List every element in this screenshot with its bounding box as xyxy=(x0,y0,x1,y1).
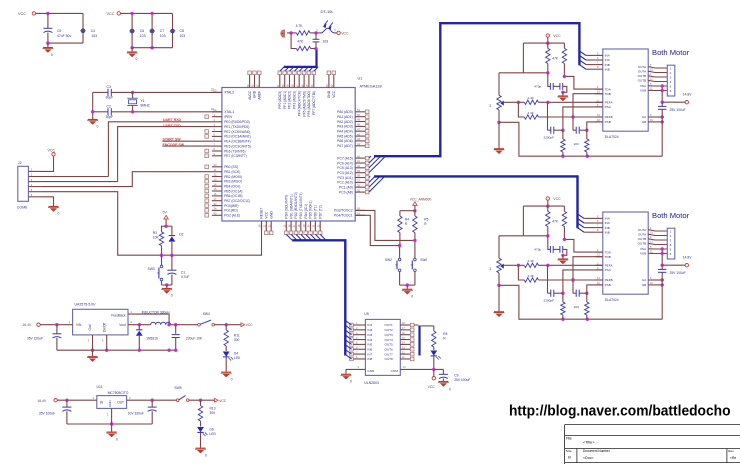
svg-text:10K: 10K xyxy=(153,235,160,239)
resistor R11 300 xyxy=(225,325,227,330)
pin PD3 (TXD1/INT3) (28) bottom of U1 xyxy=(300,221,302,231)
svg-text:OUT6: OUT6 xyxy=(385,347,394,351)
potentiometer driver 2 xyxy=(498,236,500,258)
resistor R3 10K xyxy=(161,226,163,232)
svg-text:PG2 (ALE): PG2 (ALE) xyxy=(224,214,240,218)
svg-text:0: 0 xyxy=(97,125,99,129)
pin IN3 of U5 xyxy=(353,334,365,336)
svg-text:C5: C5 xyxy=(57,29,61,33)
svg-text:300: 300 xyxy=(234,338,240,342)
pin PG1(RD) (34) of U1 xyxy=(212,209,222,211)
node junctions on RESET rail xyxy=(160,254,163,257)
svg-text:PE4 (OC3B/INT4): PE4 (OC3B/INT4) xyxy=(224,140,250,144)
svg-text:Size: Size xyxy=(566,449,572,453)
pin PA4 (AD4) (47) of U1 xyxy=(355,130,365,132)
node junction at C5 top xyxy=(46,12,49,15)
svg-text:OUTB: OUTB xyxy=(638,237,647,241)
svg-text:PSB: PSB xyxy=(605,283,611,287)
diode 1N5819 xyxy=(138,325,140,330)
pin PD1 (SDA/INT1) (26) bottom of U1 xyxy=(290,221,292,231)
svg-text:VSB: VSB xyxy=(640,252,646,256)
ground 0 reg2 xyxy=(111,424,113,432)
ground 0 at D4 xyxy=(225,357,227,372)
pin PC5 (A13) (40) of U1 xyxy=(355,167,365,169)
svg-text:INA: INA xyxy=(605,58,611,62)
pin PE7 (IC3/INT7) (9) of U1 xyxy=(212,155,222,157)
pin PE4 (OC3B/INT4) (6) of U1 xyxy=(212,140,222,142)
svg-text:SW5: SW5 xyxy=(174,386,181,390)
pin TDB driver 1 xyxy=(596,93,603,95)
pin PD2 (RXD1/INT2) (27) bottom of U1 xyxy=(295,221,297,231)
wire PSA drop driver 2 xyxy=(563,270,604,293)
wire PE5 ENCODE SW net xyxy=(162,145,212,147)
svg-text:OUTB: OUTB xyxy=(638,79,647,83)
pin PB2 (MOSI) (12) of U1 xyxy=(212,176,222,178)
capacitor 35V 220uF reg1 xyxy=(56,325,58,334)
capacitor 220uF reg1 output xyxy=(175,325,177,334)
wire pot wiper driver 1 xyxy=(504,101,525,103)
svg-text:PB4 (OC0): PB4 (OC0) xyxy=(224,185,240,189)
svg-text:COM: COM xyxy=(391,369,399,373)
pin PF1 (ADC1) (60) top of U1 xyxy=(284,74,286,87)
svg-text:IN5: IN5 xyxy=(367,343,372,347)
svg-text:0: 0 xyxy=(411,294,413,298)
svg-text:OUT2: OUT2 xyxy=(385,328,394,332)
pin IN7 of U5 xyxy=(353,353,365,355)
svg-text:U5: U5 xyxy=(364,312,368,316)
wire phototransistor to VCC xyxy=(334,32,338,34)
svg-text:OUTA: OUTA xyxy=(638,69,647,73)
pin IN4 of U5 xyxy=(353,339,365,341)
svg-text:0: 0 xyxy=(350,379,352,383)
svg-text:PC0 (A8): PC0 (A8) xyxy=(339,190,353,194)
svg-text:C8: C8 xyxy=(180,29,184,33)
svg-text:3: 3 xyxy=(489,104,491,108)
svg-text:AVCC: AVCC xyxy=(248,90,252,100)
svg-text:D6: D6 xyxy=(210,427,214,431)
pin VCC (21) bottom of U1 xyxy=(265,221,267,231)
pin GND (63) top of U1 xyxy=(254,74,256,87)
svg-text:PSA: PSA xyxy=(605,105,612,109)
svg-text:OUTB: OUTB xyxy=(638,74,647,78)
svg-text:PE6 (T3/INT6): PE6 (T3/INT6) xyxy=(224,149,245,153)
ground 0 reset xyxy=(166,285,168,288)
pin PF7 (ADC7/TDI) (54) top of U1 xyxy=(313,74,315,87)
pin PD7 (T2) (32) bottom of U1 xyxy=(319,221,321,231)
pin PE0 (RXD0/PD0) (2) of U1 xyxy=(212,121,222,123)
wire pot wiper driver 2 xyxy=(504,264,525,266)
svg-text:PC1 (A9): PC1 (A9) xyxy=(339,186,353,190)
svg-text:GND: GND xyxy=(327,90,331,98)
pin 2 of J2 xyxy=(28,176,42,178)
svg-text:INB: INB xyxy=(605,67,610,71)
wire VCC_ARM to R4 R5 xyxy=(414,205,416,210)
svg-text:3: 3 xyxy=(489,267,491,271)
wire VS trunk driver 1 xyxy=(661,86,663,106)
svg-text:PC2 (A10): PC2 (A10) xyxy=(337,181,352,185)
resistor R6 xyxy=(433,326,435,331)
pin PF0 (ADC0) (61) top of U1 xyxy=(279,74,281,87)
svg-text:PSA: PSA xyxy=(605,268,612,272)
bus PC7-PC4 to motor driver 1 xyxy=(374,23,579,156)
wire VCC rail driver 1 xyxy=(523,42,564,44)
wire TDA net driver 1 xyxy=(564,76,604,89)
svg-text:PF2 (ADC2): PF2 (ADC2) xyxy=(288,91,292,109)
svg-text:470p: 470p xyxy=(534,85,541,89)
svg-text:C9: C9 xyxy=(454,374,458,378)
pin TDB driver 2 xyxy=(596,256,603,258)
resistor R4 xyxy=(399,211,401,216)
wire PE4 START SW net xyxy=(162,140,212,142)
svg-text:VSB: VSB xyxy=(640,89,646,93)
svg-text:PB5 (OC1A): PB5 (OC1A) xyxy=(224,189,242,193)
IC U1 ATMEGA128 body xyxy=(222,88,355,222)
svg-text:SW0: SW0 xyxy=(420,258,427,262)
svg-text:PE7 (IC3/INT7): PE7 (IC3/INT7) xyxy=(224,154,247,158)
svg-text:Both Motor: Both Motor xyxy=(652,48,690,57)
svg-text:XTAL1: XTAL1 xyxy=(224,110,234,114)
wire SW5 to VCC reg2 xyxy=(189,399,215,401)
svg-text:PEFA: PEFA xyxy=(605,264,614,268)
svg-text:0: 0 xyxy=(58,212,60,216)
LED D6 xyxy=(200,421,202,427)
resistor 47K left driver 1 xyxy=(547,43,549,48)
node sensor output xyxy=(314,47,317,50)
pin PA1 (AD1) (50) of U1 xyxy=(355,116,365,118)
wire crystal ground leg xyxy=(92,92,94,119)
svg-text:PD6 (T1): PD6 (T1) xyxy=(314,205,318,218)
svg-text:B: B xyxy=(568,456,571,460)
pin PC3 (A11) (38) of U1 xyxy=(355,177,365,179)
svg-text:2200pF: 2200pF xyxy=(544,135,555,139)
svg-text:R3: R3 xyxy=(153,231,157,235)
pin INB driver 1 xyxy=(596,68,603,70)
pin /PEN (1) of U1 xyxy=(212,116,222,118)
svg-text:PB6 (OC1B): PB6 (OC1B) xyxy=(224,194,242,198)
title block frame xyxy=(565,425,740,464)
svg-text:Y1: Y1 xyxy=(141,99,145,103)
svg-text:OUT4: OUT4 xyxy=(385,338,394,342)
svg-text:Gnd: Gnd xyxy=(88,324,92,330)
pin TDA driver 1 xyxy=(596,88,603,90)
svg-text:0: 0 xyxy=(205,453,207,457)
svg-text:GB: GB xyxy=(642,120,646,124)
bus PD to ULN2803 xyxy=(292,240,345,355)
pin PE1 (TXD0/PD0) (3) of U1 xyxy=(212,126,222,128)
pin IN8 of U5 xyxy=(353,358,365,360)
pin XTAL1 (24) of U1 xyxy=(212,111,222,113)
svg-text:PEFB: PEFB xyxy=(605,115,613,119)
svg-text:PD5 (XCK1): PD5 (XCK1) xyxy=(309,200,313,218)
svg-text:PA3 (AD3): PA3 (AD3) xyxy=(337,125,353,129)
pin PC6 (A14) (41) of U1 xyxy=(355,162,365,164)
wire VIN reg1 xyxy=(40,324,72,326)
svg-text:PF6 (ADC6/TDO): PF6 (ADC6/TDO) xyxy=(307,91,311,117)
node after inductor reg1 xyxy=(171,324,199,326)
wire bottom rail driver 1 xyxy=(499,122,662,156)
svg-text:SW3: SW3 xyxy=(148,267,155,271)
pin PB0 (SS) (10) of U1 xyxy=(212,166,222,168)
IR emitter element xyxy=(281,30,285,37)
wire to PEFB driver 1 xyxy=(538,116,604,118)
pin INB driver 2 xyxy=(596,227,603,229)
svg-text:PE2 (XCK0/AIN0): PE2 (XCK0/AIN0) xyxy=(224,130,250,134)
svg-text:103: 103 xyxy=(160,34,166,38)
svg-text:103: 103 xyxy=(574,142,579,146)
svg-text:PA5 (AD5): PA5 (AD5) xyxy=(337,134,353,138)
svg-text:<Re: <Re xyxy=(730,456,736,460)
power port VCC down at U5 xyxy=(433,369,435,376)
capacitor C1 4.7uF xyxy=(171,255,173,270)
wire 5V to R3/D2 xyxy=(165,219,167,226)
svg-text:OUTB: OUTB xyxy=(638,242,647,246)
pin PEFB driver 1 xyxy=(596,116,603,118)
svg-text:PB3 (MISO): PB3 (MISO) xyxy=(224,180,242,184)
svg-text:VCC: VCC xyxy=(553,197,561,201)
wire OUT reg2 xyxy=(127,399,177,401)
pin PC1 (A9) (36) of U1 xyxy=(355,186,365,188)
wire to PEFB driver 2 xyxy=(538,279,604,281)
svg-text:OUTA: OUTA xyxy=(638,232,647,236)
svg-text:1N5819: 1N5819 xyxy=(146,336,158,340)
wire bottom group1 xyxy=(48,42,83,44)
wire PG4 to R4 node xyxy=(355,215,399,258)
pin VCC (52) top of U1 xyxy=(333,74,335,87)
svg-text:PF7 (ADC7/TDI): PF7 (ADC7/TDI) xyxy=(312,91,316,115)
resistor R5 xyxy=(414,211,416,216)
pin PD4 (IC1) (29) bottom of U1 xyxy=(305,221,307,231)
wire to phototransistor base node xyxy=(310,32,322,34)
wire to PEFA driver 1 xyxy=(538,101,604,103)
pin INA driver 1 xyxy=(596,59,603,61)
svg-text:PE1 (TXD0/PD0): PE1 (TXD0/PD0) xyxy=(224,125,249,129)
wire XTAL1 to MCU pin 24 xyxy=(111,111,222,113)
pin INB driver 2 xyxy=(596,231,603,233)
capacitor 25V 100uF driver 2 xyxy=(658,269,666,272)
pin PF2 (ADC2) (59) top of U1 xyxy=(289,74,291,87)
svg-text:UART RXD: UART RXD xyxy=(163,118,182,122)
ground 0 crystal xyxy=(87,120,98,125)
svg-text:R4: R4 xyxy=(405,217,409,221)
svg-text:VSA: VSA xyxy=(640,84,647,88)
svg-text:2.4K: 2.4K xyxy=(528,259,535,263)
svg-text:OUT: OUT xyxy=(117,401,124,405)
svg-text:PF0 (ADC0): PF0 (ADC0) xyxy=(278,91,282,109)
svg-text:0: 0 xyxy=(51,53,53,57)
pin PA6 (AD6) (45) of U1 xyxy=(355,140,365,142)
svg-text:OUT1: OUT1 xyxy=(385,323,394,327)
wire ground rail reg1 xyxy=(57,349,176,351)
svg-text:35V 100uF: 35V 100uF xyxy=(39,412,55,416)
pin PA3 (AD3) (48) of U1 xyxy=(355,125,365,127)
svg-text:START SW: START SW xyxy=(163,138,182,142)
svg-text:2.4K: 2.4K xyxy=(528,111,535,115)
svg-text:0: 0 xyxy=(171,294,173,298)
wire J2 pin6 to ground xyxy=(42,197,54,206)
IC DLA7024 driver 2 xyxy=(603,212,648,294)
svg-text:VCC: VCC xyxy=(265,211,269,219)
svg-text:4.7uF: 4.7uF xyxy=(181,275,189,279)
IC U5 ULN2803 body xyxy=(365,319,400,375)
pin GND (22) bottom of U1 xyxy=(270,221,272,231)
ground 470p driver 1 xyxy=(562,92,564,95)
resistor right vertical driver 2 xyxy=(585,302,589,315)
wire J2 pin1 to VCC xyxy=(42,156,54,171)
svg-text:Vout: Vout xyxy=(119,323,125,327)
resistor 47K right driver 1 xyxy=(563,43,565,48)
wire PSB drop driver 1 xyxy=(587,122,604,139)
svg-text:300: 300 xyxy=(210,411,216,415)
bus collector bar at U5 outputs xyxy=(418,326,420,356)
capacitor 103 driver 1 xyxy=(573,129,576,131)
wire to PEFA driver 2 xyxy=(538,264,604,266)
svg-text:J2: J2 xyxy=(18,161,22,165)
pin GND reg2 xyxy=(111,408,113,424)
svg-text:INA: INA xyxy=(605,54,611,58)
svg-text:PG0(WR): PG0(WR) xyxy=(224,204,238,208)
svg-text:GND: GND xyxy=(269,211,273,219)
wire ground rail reg2 xyxy=(67,423,152,425)
wire pot bottom to ground driver 2 xyxy=(498,273,500,285)
wire J2 pin2 run xyxy=(42,176,108,178)
svg-text:GND: GND xyxy=(253,90,257,98)
wire VCC rail driver 2 xyxy=(523,205,564,207)
pin PF5 (ADC5/TMS) (56) top of U1 xyxy=(303,74,305,87)
diode D2 xyxy=(171,226,173,235)
svg-text:ULN2803: ULN2803 xyxy=(364,381,378,385)
svg-text:2200pF: 2200pF xyxy=(544,298,555,302)
svg-text:Document Number: Document Number xyxy=(583,449,611,453)
inductor 330uH xyxy=(151,322,171,325)
bus entries to IN pins driver 1 xyxy=(579,51,586,56)
svg-text:Both Motor: Both Motor xyxy=(652,211,690,220)
capacitor 2200pF driver 2 xyxy=(547,265,549,293)
svg-text:16.4V: 16.4V xyxy=(22,323,32,327)
svg-text:VCC: VCC xyxy=(428,385,436,389)
svg-text:47K: 47K xyxy=(297,40,304,44)
pin PA7 (AD7) (44) of U1 xyxy=(355,145,365,147)
svg-text:PC7 (A15): PC7 (A15) xyxy=(337,156,352,160)
pin PSB driver 2 xyxy=(596,284,603,286)
svg-text:U11: U11 xyxy=(97,385,103,389)
svg-text:TDB: TDB xyxy=(605,92,611,96)
wire bottom group2 xyxy=(132,47,172,49)
svg-text:47K: 47K xyxy=(552,220,559,224)
svg-text:R6: R6 xyxy=(443,332,447,336)
ground 0 group1 xyxy=(47,43,49,48)
svg-text:PB7 (OC2/OC1C): PB7 (OC2/OC1C) xyxy=(224,199,250,203)
svg-text:PB2 (MOSI): PB2 (MOSI) xyxy=(224,175,242,179)
capacitor C7 103 xyxy=(151,13,153,47)
pin PSA driver 2 xyxy=(596,269,603,271)
svg-text:IN1: IN1 xyxy=(367,323,372,327)
svg-text:FeedBack: FeedBack xyxy=(111,314,126,318)
svg-text:PD4 (IC1): PD4 (IC1) xyxy=(304,204,308,219)
wire J2 pin5 to RESET net xyxy=(42,192,262,256)
ground 470p driver 2 xyxy=(562,255,564,258)
pin PB6 (OC1B) (16) of U1 xyxy=(212,195,222,197)
svg-text:PSB: PSB xyxy=(605,120,611,124)
pin IN5 of U5 xyxy=(353,343,365,345)
IC DLA7024 driver 1 xyxy=(603,49,648,131)
svg-text:LED: LED xyxy=(210,432,217,436)
resistor left vertical driver 2 xyxy=(561,302,565,315)
pin PG0(WR) (33) of U1 xyxy=(212,205,222,207)
pin AREF (62) top of U1 xyxy=(258,74,260,87)
pin IN1 of U5 xyxy=(353,324,365,326)
crystal Y1 8MHZ xyxy=(132,92,134,98)
svg-text:PC6 (A14): PC6 (A14) xyxy=(337,161,352,165)
resistor 2.4K lower driver 1 xyxy=(518,102,524,117)
svg-text:TDB: TDB xyxy=(605,255,611,259)
power port VCC reg2 (arrow) xyxy=(215,398,219,402)
pin TDA driver 2 xyxy=(596,251,603,253)
pin PA2 (AD2) (49) of U1 xyxy=(355,121,365,123)
svg-text:47K: 47K xyxy=(552,57,559,61)
capacitor C9 25V 100uF xyxy=(442,369,444,374)
svg-text:PE0 (RXD0/PD0): PE0 (RXD0/PD0) xyxy=(224,120,249,124)
pin PD5 (XCK1) (30) bottom of U1 xyxy=(310,221,312,231)
pin INA driver 2 xyxy=(596,222,603,224)
pin 5 of J2 xyxy=(28,191,42,193)
svg-text:DT-10L: DT-10L xyxy=(321,9,335,14)
pin PE3 (OC3A/AIN1) (5) of U1 xyxy=(212,135,222,137)
svg-text:R13: R13 xyxy=(210,406,216,410)
svg-text:INDUCTOR 330uH: INDUCTOR 330uH xyxy=(142,310,171,314)
pin PSA driver 1 xyxy=(596,106,603,108)
svg-text:PF1 (ADC1): PF1 (ADC1) xyxy=(283,91,287,109)
ground pot driver 2 xyxy=(494,312,505,317)
svg-text:On/Off: On/Off xyxy=(102,323,106,332)
power port VCC driver 1 xyxy=(546,34,549,37)
svg-text:INB: INB xyxy=(605,230,610,234)
node junctions R4 R5 xyxy=(413,239,416,242)
pin PE2 (XCK0/AIN0) (4) of U1 xyxy=(212,131,222,133)
pin PA5 (AD5) (46) of U1 xyxy=(355,135,365,137)
wire PSB drop driver 2 xyxy=(587,285,604,302)
svg-text:25V 100uF: 25V 100uF xyxy=(670,271,686,275)
pin PF4 (ADC4/TCK) (57) top of U1 xyxy=(298,74,300,87)
pin PC0 (A8) (35) of U1 xyxy=(355,191,365,193)
wire IN reg2 xyxy=(57,399,97,401)
svg-text:Rev: Rev xyxy=(728,449,734,453)
svg-text:UA2575-5.0V: UA2575-5.0V xyxy=(75,303,97,307)
svg-text:OUT3: OUT3 xyxy=(385,333,394,337)
svg-text:IN8: IN8 xyxy=(367,357,372,361)
svg-text:PC5 (A13): PC5 (A13) xyxy=(337,166,352,170)
svg-text:TDA: TDA xyxy=(605,87,612,91)
pin PC2 (A10) (37) of U1 xyxy=(355,181,365,183)
pin PD0 (SCL/INT0) (25) bottom of U1 xyxy=(285,221,287,231)
pin PF3 (ADC3) (58) top of U1 xyxy=(293,74,295,87)
svg-text:ENCODE SW: ENCODE SW xyxy=(163,143,185,147)
svg-text:C6: C6 xyxy=(140,29,144,33)
svg-text:C1: C1 xyxy=(181,270,185,274)
svg-text:470p: 470p xyxy=(534,248,541,252)
resistor R13 300 xyxy=(200,400,202,405)
svg-text:16.4V: 16.4V xyxy=(37,399,47,403)
capacitor C5 47uF 50v xyxy=(47,13,49,28)
pin PF6 (ADC6/TDO) (55) top of U1 xyxy=(308,74,310,87)
pin PA0 (AD0) (51) of U1 xyxy=(355,111,365,113)
wire VCC top rail group2 xyxy=(121,12,173,14)
pin PSB driver 1 xyxy=(596,121,603,123)
svg-text:VCC: VCC xyxy=(246,323,254,327)
svg-text:RESET: RESET xyxy=(260,208,264,219)
ground 0 at J2 xyxy=(48,207,59,212)
svg-text:VCC: VCC xyxy=(18,12,26,16)
svg-text:0: 0 xyxy=(116,437,118,441)
